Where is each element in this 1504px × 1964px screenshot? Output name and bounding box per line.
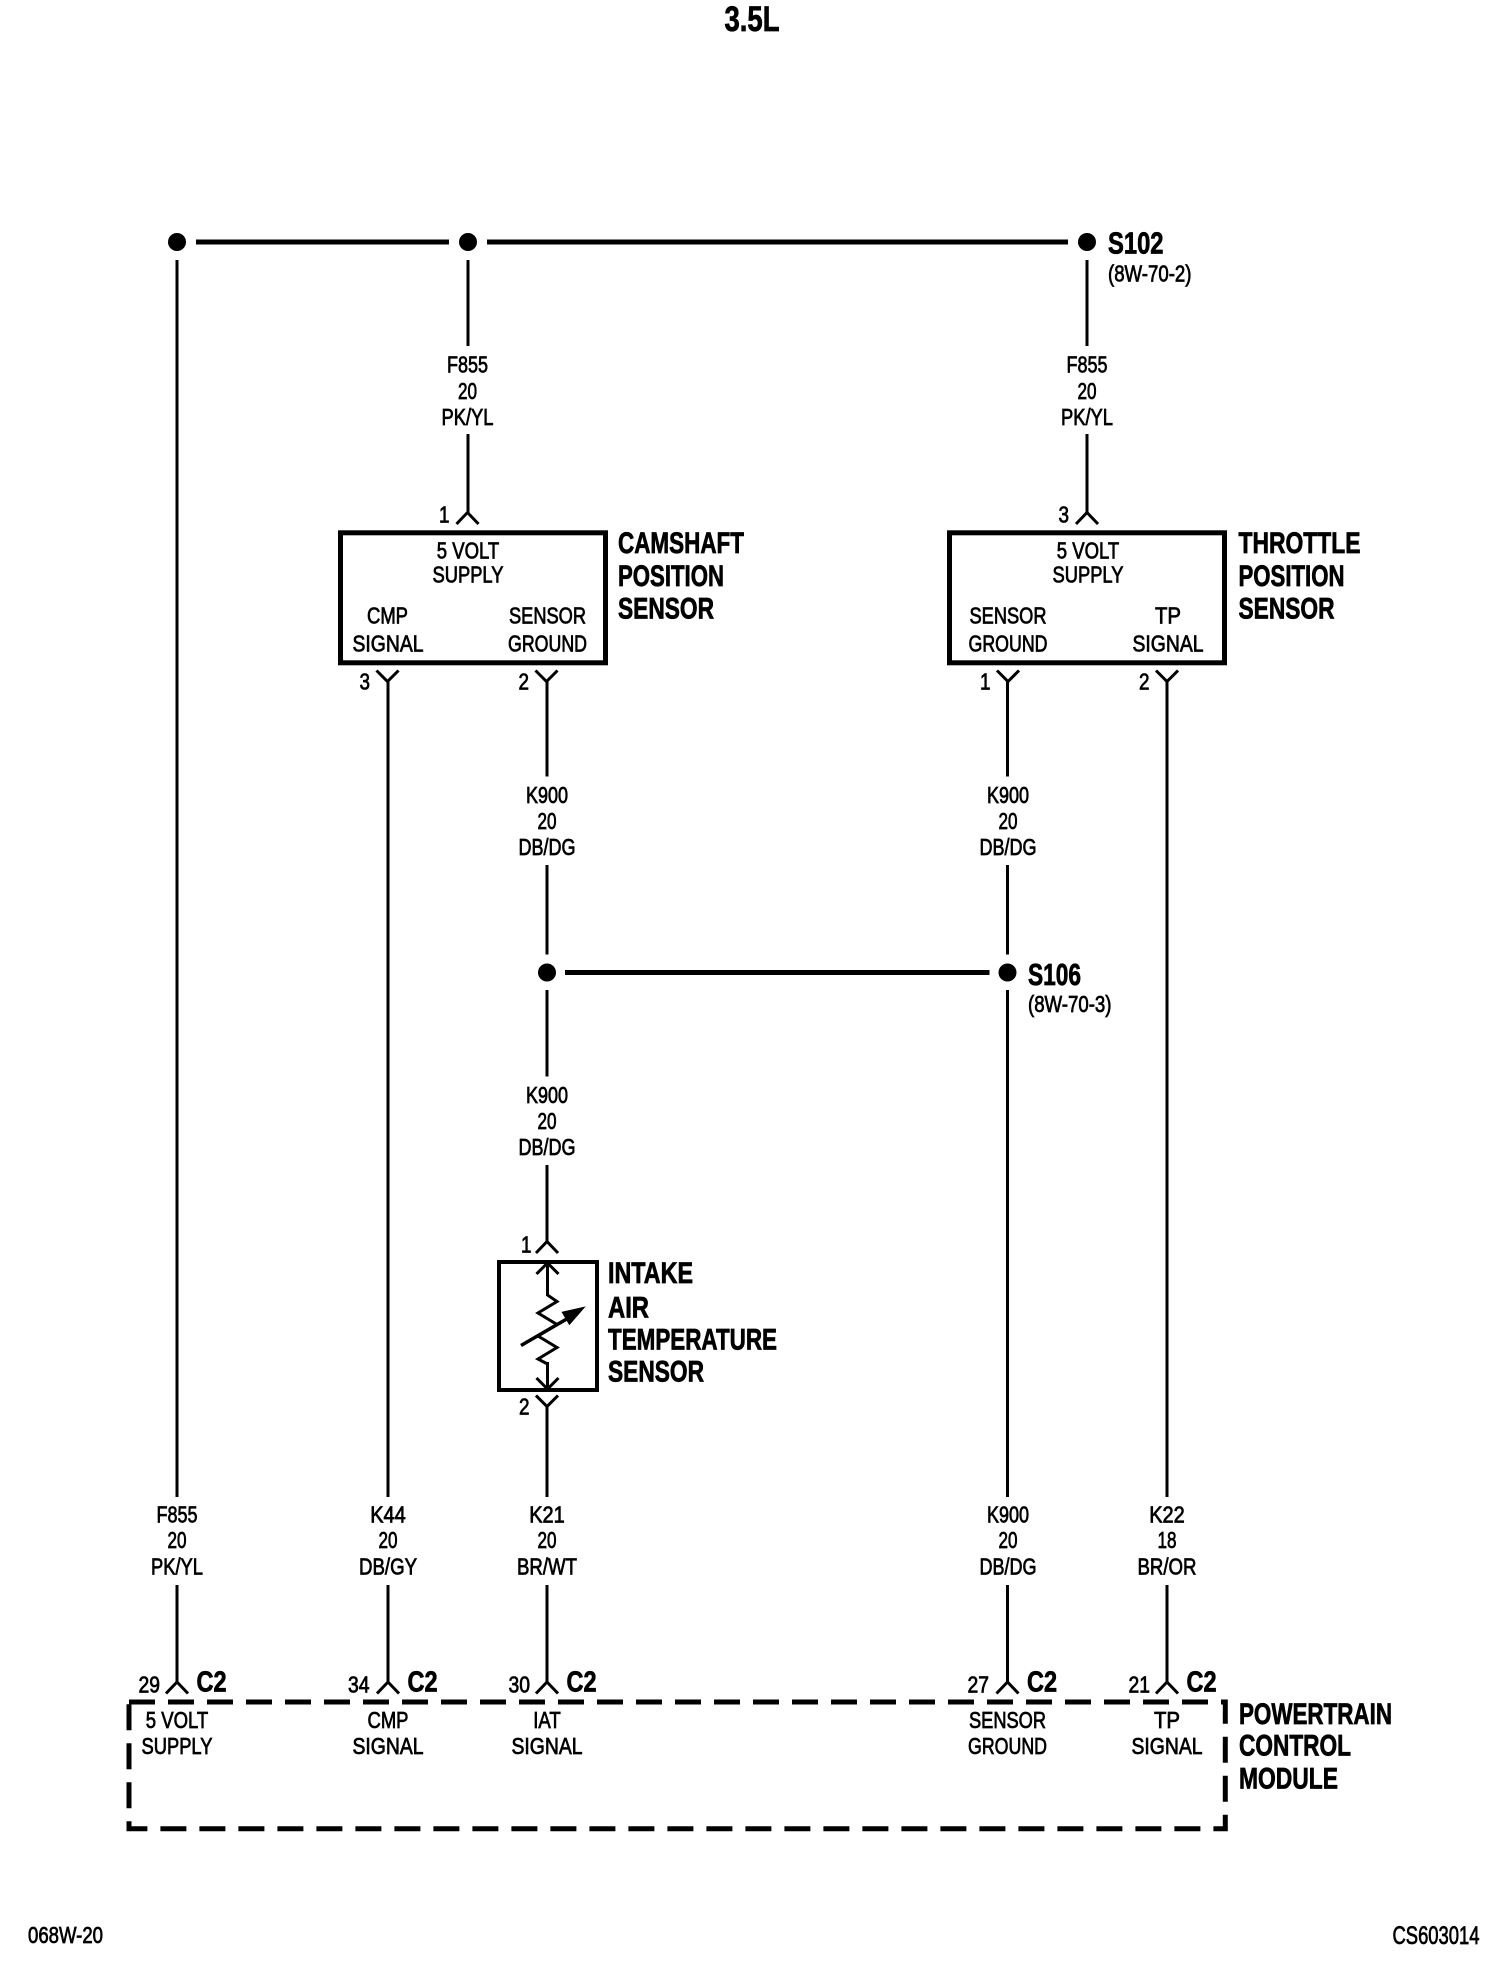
svg-text:20: 20: [1078, 378, 1097, 404]
svg-text:20: 20: [379, 1527, 398, 1553]
svg-text:SENSOR: SENSOR: [509, 603, 586, 629]
svg-text:SUPPLY: SUPPLY: [142, 1733, 213, 1759]
svg-text:K900: K900: [526, 782, 568, 808]
wire F855 left branch (S102 to PCM pin 29): [176, 260, 179, 1682]
intake air temperature sensor box: [499, 1262, 597, 1390]
svg-text:GROUND: GROUND: [508, 631, 587, 657]
svg-text:PK/YL: PK/YL: [442, 404, 494, 430]
svg-text:DB/DG: DB/DG: [519, 1134, 576, 1160]
svg-text:CMP: CMP: [368, 1707, 409, 1733]
label SENSOR GROUND (throttle sensor): [969, 603, 1048, 657]
label CMP SIGNAL (camshaft sensor): [353, 603, 424, 657]
svg-text:F855: F855: [157, 1502, 198, 1528]
label CAMSHAFT POSITION SENSOR: [618, 527, 744, 625]
splice S106 junction dot: [999, 964, 1017, 982]
svg-text:SIGNAL: SIGNAL: [353, 631, 424, 657]
svg-text:DB/DG: DB/DG: [519, 834, 576, 860]
svg-text:20: 20: [538, 1108, 557, 1134]
svg-text:BR/WT: BR/WT: [517, 1554, 577, 1580]
svg-text:20: 20: [168, 1527, 187, 1553]
label F855 20 PK/YL (right wire): [1061, 352, 1113, 430]
label POWERTRAIN CONTROL MODULE: [1239, 1698, 1392, 1796]
svg-text:POSITION: POSITION: [1239, 560, 1345, 593]
svg-text:CS603014: CS603014: [1393, 1922, 1480, 1950]
label 5 VOLT SUPPLY (PCM pin 29): [142, 1707, 213, 1759]
pin 30 connector C2 of PCM: [509, 1667, 597, 1699]
pin 29 connector C2 of PCM: [139, 1667, 227, 1699]
wire F855 middle branch (S102 to CMP sensor pin 1): [467, 260, 470, 513]
label K900 20 DB/DG (above S106, left): [519, 782, 576, 860]
svg-text:THROTTLE: THROTTLE: [1239, 527, 1361, 560]
svg-text:DB/GY: DB/GY: [359, 1554, 417, 1580]
svg-text:20: 20: [458, 378, 477, 404]
svg-text:1: 1: [439, 502, 450, 528]
svg-text:18: 18: [1158, 1527, 1177, 1553]
svg-text:AIR: AIR: [608, 1292, 649, 1325]
svg-text:20: 20: [538, 808, 557, 834]
svg-text:POSITION: POSITION: [618, 560, 724, 593]
svg-text:S106: S106: [1028, 957, 1081, 992]
pin 3 connector of camshaft position sensor: [360, 669, 399, 695]
throttle position sensor box: [950, 533, 1225, 663]
label TP SIGNAL (throttle sensor): [1133, 603, 1204, 657]
svg-text:S102: S102: [1108, 226, 1164, 261]
svg-text:SENSOR: SENSOR: [970, 603, 1047, 629]
label CMP SIGNAL (PCM pin 34): [353, 1707, 424, 1759]
svg-text:MODULE: MODULE: [1239, 1763, 1338, 1796]
svg-text:5 VOLT: 5 VOLT: [1057, 538, 1120, 564]
label K21 20 BR/WT: [517, 1502, 577, 1580]
svg-text:SENSOR: SENSOR: [1239, 592, 1335, 625]
label F855 20 PK/YL (left wire): [151, 1502, 203, 1580]
wire K900 (TP sensor ground through S106 to PCM pin 27): [1006, 682, 1009, 1683]
svg-text:SIGNAL: SIGNAL: [353, 1733, 424, 1759]
label 5 VOLT SUPPLY (throttle sensor): [1053, 538, 1124, 588]
svg-text:SENSOR: SENSOR: [969, 1707, 1046, 1733]
label K900 20 DB/DG (above S106, right): [980, 782, 1037, 860]
pin 2 connector of camshaft position sensor: [519, 669, 558, 695]
svg-text:CMP: CMP: [367, 603, 408, 629]
svg-text:K21: K21: [529, 1502, 565, 1528]
pin 3 connector of throttle position sensor: [1059, 502, 1099, 528]
svg-text:SUPPLY: SUPPLY: [1053, 562, 1124, 588]
wire K21 (IAT sensor to PCM pin 30): [546, 1407, 549, 1683]
svg-text:21: 21: [1129, 1672, 1151, 1698]
svg-text:2: 2: [519, 669, 530, 695]
svg-text:K22: K22: [1149, 1502, 1185, 1528]
title 3.5L: [725, 0, 780, 39]
label F855 20 PK/YL (middle wire): [442, 352, 494, 430]
wire K900 (camshaft sensor ground to S106 and IAT sensor): [546, 682, 549, 1242]
svg-text:CAMSHAFT: CAMSHAFT: [618, 527, 744, 560]
svg-text:C2: C2: [1187, 1667, 1217, 1699]
svg-text:2: 2: [1139, 669, 1150, 695]
svg-text:F855: F855: [1067, 352, 1108, 378]
svg-text:3: 3: [360, 669, 371, 695]
wire: S102 bus (horizontal): [196, 240, 1068, 245]
svg-text:C2: C2: [408, 1667, 438, 1699]
wire K44 (CMP signal to PCM pin 34): [387, 682, 390, 1683]
svg-text:SIGNAL: SIGNAL: [1132, 1733, 1203, 1759]
wire K22 (TP signal to PCM pin 21): [1166, 682, 1169, 1683]
svg-text:DB/DG: DB/DG: [980, 834, 1037, 860]
svg-text:C2: C2: [1027, 1667, 1057, 1699]
svg-text:C2: C2: [567, 1667, 597, 1699]
label SENSOR GROUND (PCM pin 27): [968, 1707, 1047, 1759]
svg-text:K44: K44: [370, 1502, 406, 1528]
label THROTTLE POSITION SENSOR: [1239, 527, 1361, 625]
label SENSOR GROUND (camshaft sensor): [508, 603, 587, 657]
svg-text:3: 3: [1059, 502, 1070, 528]
svg-text:K900: K900: [526, 1082, 568, 1108]
powertrain control module box (dashed): [129, 1702, 1225, 1829]
label 068W-20 (sheet number): [28, 1922, 103, 1948]
label K900 20 DB/DG (lower right wire): [980, 1502, 1037, 1580]
svg-text:TP: TP: [1155, 603, 1181, 629]
svg-text:GROUND: GROUND: [968, 1733, 1047, 1759]
svg-text:2: 2: [519, 1394, 530, 1420]
svg-text:INTAKE: INTAKE: [608, 1257, 693, 1290]
svg-text:SENSOR: SENSOR: [618, 592, 714, 625]
svg-text:CONTROL: CONTROL: [1239, 1730, 1351, 1763]
svg-text:C2: C2: [197, 1667, 227, 1699]
wire: S106 bus (horizontal): [565, 970, 990, 975]
svg-text:IAT: IAT: [533, 1707, 561, 1733]
svg-text:1: 1: [980, 669, 991, 695]
svg-text:POWERTRAIN: POWERTRAIN: [1239, 1698, 1392, 1731]
pin 27 connector C2 of PCM: [968, 1667, 1058, 1699]
svg-text:SUPPLY: SUPPLY: [433, 562, 504, 588]
svg-text:5 VOLT: 5 VOLT: [437, 538, 500, 564]
pin 34 connector C2 of PCM: [348, 1667, 438, 1699]
junction dot middle on S102 bus: [459, 233, 477, 251]
label S102 (8W-70-2): [1108, 226, 1192, 287]
svg-text:(8W-70-2): (8W-70-2): [1108, 261, 1192, 287]
svg-text:29: 29: [139, 1672, 161, 1698]
pin 2 connector of throttle position sensor: [1139, 669, 1178, 695]
svg-text:SIGNAL: SIGNAL: [512, 1733, 583, 1759]
label INTAKE AIR TEMPERATURE SENSOR: [608, 1257, 777, 1389]
thermistor symbol (IAT sensor): [521, 1263, 583, 1389]
camshaft position sensor box: [341, 533, 606, 663]
svg-text:068W-20: 068W-20: [28, 1922, 103, 1948]
pin 2 connector of intake air temperature sensor: [519, 1394, 558, 1420]
svg-text:20: 20: [538, 1527, 557, 1553]
svg-text:(8W-70-3): (8W-70-3): [1028, 991, 1112, 1017]
svg-text:BR/OR: BR/OR: [1138, 1554, 1197, 1580]
label TP SIGNAL (PCM pin 21): [1132, 1707, 1203, 1759]
label K22 18 BR/OR: [1138, 1502, 1197, 1580]
pin 21 connector C2 of PCM: [1129, 1667, 1217, 1699]
svg-text:30: 30: [509, 1672, 531, 1698]
svg-text:20: 20: [999, 1527, 1018, 1553]
label S106 (8W-70-3): [1028, 957, 1112, 1017]
junction dot left on S106 bus: [538, 964, 556, 982]
svg-text:27: 27: [968, 1672, 990, 1698]
svg-text:DB/DG: DB/DG: [980, 1554, 1037, 1580]
label IAT SIGNAL (PCM pin 30): [512, 1707, 583, 1759]
pin 1 connector of throttle position sensor: [980, 669, 1019, 695]
label K900 20 DB/DG (below S106): [519, 1082, 576, 1160]
junction dot left on S102 bus: [168, 233, 186, 251]
svg-text:TEMPERATURE: TEMPERATURE: [608, 1324, 777, 1357]
label K44 20 DB/GY: [359, 1502, 417, 1580]
svg-text:3.5L: 3.5L: [725, 0, 780, 39]
svg-text:34: 34: [348, 1672, 370, 1698]
svg-text:SIGNAL: SIGNAL: [1133, 631, 1204, 657]
svg-text:1: 1: [521, 1232, 532, 1258]
wire F855 right branch (S102 to TP sensor pin 3): [1086, 260, 1089, 513]
svg-text:GROUND: GROUND: [969, 631, 1048, 657]
svg-text:TP: TP: [1154, 1707, 1180, 1733]
pin 1 connector of intake air temperature sensor: [521, 1232, 558, 1258]
svg-text:K900: K900: [987, 1502, 1029, 1528]
pin 1 connector of camshaft position sensor: [439, 502, 479, 528]
splice S102 junction dot: [1078, 233, 1096, 251]
svg-text:PK/YL: PK/YL: [151, 1554, 203, 1580]
svg-text:20: 20: [999, 808, 1018, 834]
svg-text:K900: K900: [987, 782, 1029, 808]
label 5 VOLT SUPPLY (camshaft sensor): [433, 538, 504, 588]
svg-text:5 VOLT: 5 VOLT: [146, 1707, 209, 1733]
label CS603014 (drawing id): [1393, 1922, 1480, 1950]
svg-text:F855: F855: [447, 352, 488, 378]
svg-text:PK/YL: PK/YL: [1061, 404, 1113, 430]
svg-text:SENSOR: SENSOR: [608, 1355, 704, 1388]
